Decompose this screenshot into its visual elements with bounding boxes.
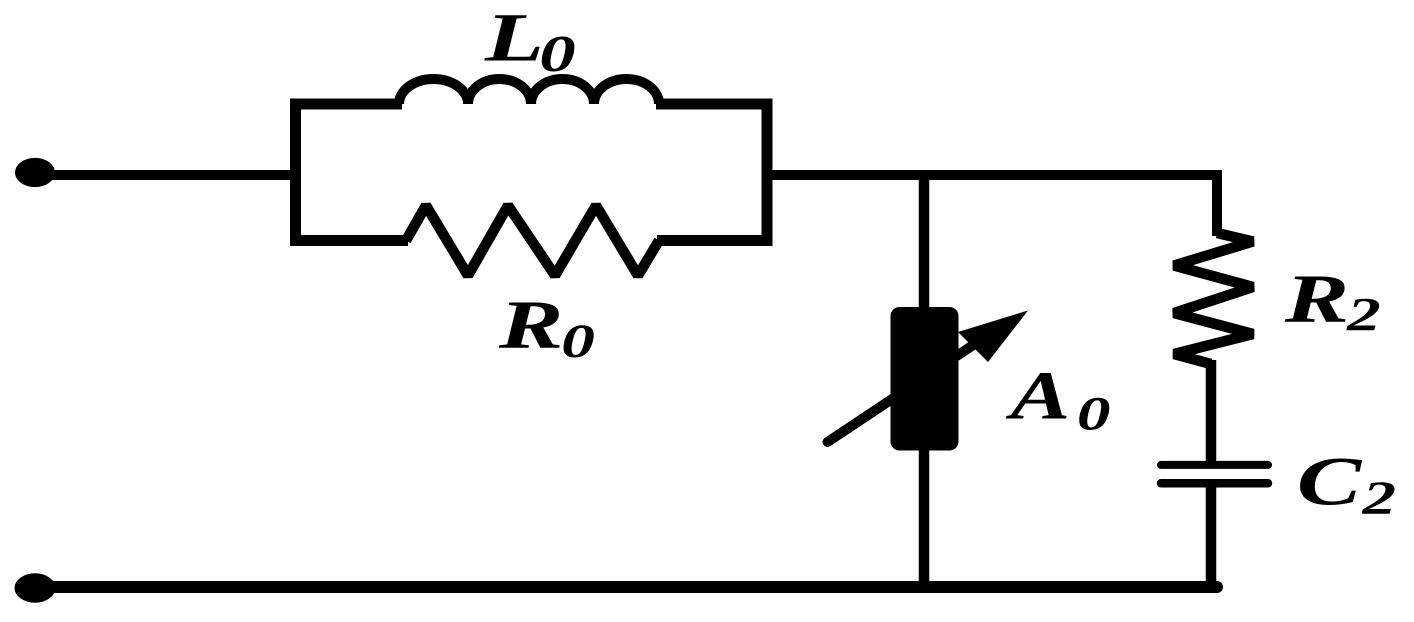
svg-text:2: 2 bbox=[1361, 471, 1396, 524]
wire: C2 to bottom bbox=[1206, 487, 1217, 587]
svg-text:0: 0 bbox=[539, 25, 575, 83]
svg-text:2: 2 bbox=[1346, 288, 1381, 341]
wire: R2 to C2 bbox=[1206, 360, 1217, 462]
arrester A0 body bbox=[891, 307, 959, 451]
label A0 bbox=[1005, 358, 1070, 434]
label L0 subscript bbox=[539, 25, 575, 83]
arrester A0 arrow shaft bbox=[828, 331, 996, 443]
label R0 bbox=[498, 287, 564, 363]
resistor R0 bbox=[406, 206, 659, 276]
svg-text:R: R bbox=[498, 287, 564, 363]
label A0 subscript bbox=[1077, 387, 1111, 440]
svg-text:0: 0 bbox=[561, 314, 595, 367]
capacitor C2 top plate bbox=[1161, 461, 1268, 469]
label R2 bbox=[1284, 261, 1350, 337]
wire: top branch right stub bbox=[656, 99, 772, 110]
wire: A0 branch bottom bbox=[919, 448, 930, 587]
label C2 subscript bbox=[1361, 471, 1396, 524]
wire: parallel-box right bar bbox=[762, 99, 773, 247]
label R0 subscript bbox=[561, 314, 595, 367]
svg-text:A: A bbox=[1005, 358, 1070, 434]
wire: bottom branch right stub bbox=[657, 235, 767, 246]
svg-text:0: 0 bbox=[1077, 387, 1111, 440]
terminal dot (bottom-left) bbox=[15, 573, 56, 602]
svg-text:C: C bbox=[1297, 444, 1363, 520]
inductor L0 bbox=[399, 79, 659, 104]
label L0 bbox=[484, 0, 544, 76]
label C2 bbox=[1297, 444, 1363, 520]
svg-text:R: R bbox=[1284, 261, 1350, 337]
wire: top input bbox=[40, 170, 295, 180]
resistor R2 bbox=[1174, 233, 1253, 364]
svg-text:L: L bbox=[484, 0, 544, 76]
wire: output top to R2 corner bbox=[772, 175, 1217, 236]
arrester A0 arrowhead bbox=[958, 311, 1028, 363]
wire: A0 branch top bbox=[919, 170, 930, 312]
wire: parallel-box left bar bbox=[290, 99, 301, 247]
wire: bottom branch left stub bbox=[294, 235, 408, 246]
wire: top branch left stub bbox=[290, 99, 402, 110]
label R2 subscript bbox=[1346, 288, 1381, 341]
capacitor C2 bottom plate bbox=[1161, 479, 1268, 488]
terminal dot (top-left input) bbox=[15, 158, 55, 187]
wire: bottom return bbox=[40, 581, 1217, 593]
